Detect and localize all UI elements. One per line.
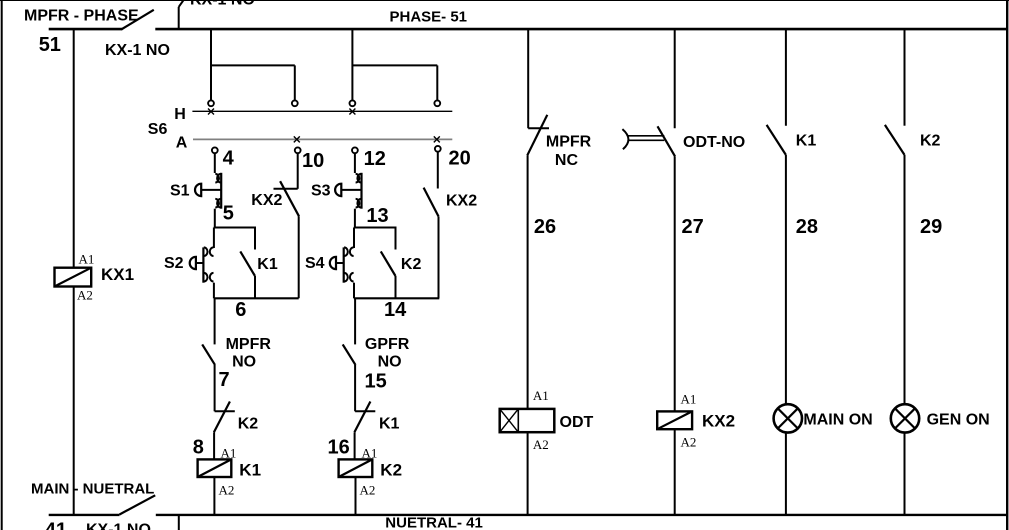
pushbutton S4 (NC) <box>353 228 355 249</box>
S6 bottom terminals <box>212 147 218 153</box>
contact K2 NO (seal-in branch) <box>395 227 397 250</box>
pushbutton S2 (NC) <box>213 228 215 249</box>
svg-text:26: 26 <box>534 216 556 238</box>
wire: lamp to neutral <box>785 433 787 515</box>
svg-text:NO: NO <box>232 354 256 371</box>
svg-text:A1: A1 <box>362 445 378 460</box>
svg-text:A1: A1 <box>221 445 237 460</box>
contact MPFR NC <box>528 127 549 129</box>
wire: rung 29 from phase bus <box>904 29 906 126</box>
wire: S6 line H <box>192 110 452 112</box>
svg-text:29: 29 <box>920 216 942 238</box>
relay coil KX2 <box>657 411 692 429</box>
svg-text:20: 20 <box>449 148 471 170</box>
pushbutton S3 (NO) <box>356 174 360 183</box>
svg-text:KX-1 NO: KX-1 NO <box>190 0 255 9</box>
contact K1 NC <box>355 410 375 412</box>
svg-text:27: 27 <box>682 216 704 238</box>
wire: contact to MAIN ON lamp <box>785 155 787 404</box>
svg-text:S3: S3 <box>311 182 331 199</box>
svg-text:KX2: KX2 <box>446 193 477 210</box>
lamp GEN ON <box>891 404 919 432</box>
svg-text:A2: A2 <box>360 482 376 497</box>
svg-text:KX1: KX1 <box>101 265 134 284</box>
wire: left vertical conductor 51 to 41 <box>73 29 75 268</box>
svg-text:PHASE- 51: PHASE- 51 <box>390 8 468 25</box>
svg-text:K1: K1 <box>239 461 261 480</box>
svg-text:S1: S1 <box>170 182 190 199</box>
svg-text:S2: S2 <box>164 255 184 272</box>
pushbutton S1 (NO) <box>215 174 219 183</box>
svg-text:KX2: KX2 <box>702 412 735 431</box>
svg-text:8: 8 <box>193 436 204 458</box>
wire: node 20 stem <box>437 151 439 188</box>
wire: top phase bus PHASE-51 <box>155 28 1008 31</box>
wire: node 12 stem <box>354 153 356 173</box>
contact ODT-NO (off-delay timed) <box>622 129 628 149</box>
svg-text:K2: K2 <box>380 461 402 480</box>
svg-text:NO: NO <box>378 354 402 371</box>
svg-text:K1: K1 <box>796 132 817 149</box>
S6 top terminals on line H <box>208 100 214 106</box>
svg-text:K1: K1 <box>257 256 278 273</box>
wire: rung 26 from phase bus <box>527 29 529 128</box>
svg-text:A2: A2 <box>533 437 549 452</box>
wire: right edge line (phase return) <box>1006 0 1008 530</box>
svg-text:K2: K2 <box>920 132 941 149</box>
svg-text:10: 10 <box>302 150 324 172</box>
wire: S6 T-branch 2 <box>352 64 437 66</box>
timer coil ODT <box>500 409 555 432</box>
wire: node 14 branch <box>354 297 439 299</box>
wire: left edge line <box>1 0 3 530</box>
svg-text:A1: A1 <box>681 392 697 407</box>
svg-text:KX2: KX2 <box>251 192 282 209</box>
contact K2 NO <box>885 125 905 155</box>
svg-text:A: A <box>176 134 188 151</box>
svg-text:S6: S6 <box>148 121 168 138</box>
wire: contact to ODT coil <box>527 155 529 409</box>
svg-text:K2: K2 <box>401 256 422 273</box>
svg-text:A1: A1 <box>79 252 95 267</box>
svg-text:NUETRAL- 41: NUETRAL- 41 <box>385 515 483 530</box>
wire: node 6 branch <box>214 297 299 299</box>
wire: lamp to neutral <box>904 433 906 515</box>
svg-text:28: 28 <box>796 216 818 238</box>
svg-text:6: 6 <box>235 299 246 321</box>
svg-text:A2: A2 <box>681 435 697 450</box>
svg-text:12: 12 <box>364 148 386 170</box>
wire: node 13 branch <box>354 227 396 229</box>
contact K1 NO (seal-in branch) <box>254 227 256 250</box>
svg-text:A1: A1 <box>533 388 549 403</box>
wire: ODT coil to neutral <box>527 432 529 515</box>
svg-text:15: 15 <box>365 371 387 393</box>
svg-text:13: 13 <box>366 205 388 227</box>
wire: node 4 stem <box>214 153 216 173</box>
svg-text:MAIN ON: MAIN ON <box>803 412 872 429</box>
wire: KX2 coil to neutral <box>674 429 676 515</box>
contact KX-1 NO at top (clipped) <box>178 7 180 29</box>
svg-text:5: 5 <box>223 203 234 225</box>
contact KX2 NO <box>424 188 439 217</box>
wire: contact to GEN ON lamp <box>904 155 906 404</box>
svg-text:A2: A2 <box>219 482 235 497</box>
svg-text:H: H <box>174 106 186 123</box>
svg-text:ODT: ODT <box>560 414 594 431</box>
wire: K2 coil to neutral <box>355 477 357 515</box>
lamp MAIN ON <box>774 404 802 432</box>
switch S6 selector: feeder col1 <box>210 29 212 101</box>
wire: S1 to node 5 <box>214 209 216 228</box>
relay coil K2 <box>339 459 373 477</box>
contact K2 NC <box>215 410 235 412</box>
wire: node 5 branch <box>214 227 255 229</box>
wire: top edge line <box>0 0 1009 2</box>
svg-text:41: 41 <box>45 519 67 530</box>
wire: S6 T-branch 1 <box>211 64 295 66</box>
wire: bottom neutral bus NUETRAL-41 main segment <box>156 514 1008 516</box>
wire: rung 28 from phase bus <box>785 29 787 126</box>
svg-text:MAIN - NUETRAL: MAIN - NUETRAL <box>31 481 154 498</box>
svg-text:4: 4 <box>223 148 235 170</box>
svg-text:MPFR: MPFR <box>226 336 272 353</box>
svg-text:K1: K1 <box>379 416 400 433</box>
svg-text:16: 16 <box>328 436 350 458</box>
svg-text:GEN ON: GEN ON <box>927 412 990 429</box>
wire: S3 to node 13 <box>354 209 356 228</box>
wire: contact to KX2 coil <box>674 156 676 411</box>
contact GPFR NO <box>343 344 356 365</box>
wire: stub below neutral bus <box>178 515 180 530</box>
svg-text:14: 14 <box>384 299 407 321</box>
relay coil K1 <box>198 459 232 477</box>
svg-text:A2: A2 <box>77 288 93 303</box>
switch S6 selector: feeder col3 <box>351 29 353 101</box>
svg-text:KX-1 NO: KX-1 NO <box>105 42 170 59</box>
svg-text:MPFR: MPFR <box>546 134 592 151</box>
svg-text:S4: S4 <box>305 255 325 272</box>
svg-text:NC: NC <box>555 152 579 169</box>
svg-text:51: 51 <box>39 34 61 56</box>
wire: node 6 down <box>214 298 216 344</box>
relay coil KX1 <box>55 268 92 287</box>
wire: S6 line A (gray) <box>193 138 452 140</box>
svg-text:7: 7 <box>219 369 230 391</box>
svg-text:K2: K2 <box>238 416 259 433</box>
wire: node 14 down <box>354 298 356 344</box>
contact MPFR NO <box>202 344 215 365</box>
wire: node 10 stem <box>297 153 299 189</box>
contact K1 NO <box>767 125 786 155</box>
svg-text:GPFR: GPFR <box>365 336 410 353</box>
wire: KX2 NC to node 6 <box>298 216 300 298</box>
wire: K1 coil to neutral <box>213 477 215 515</box>
wire: KX2 NO to node 14 <box>438 216 440 298</box>
wire: bottom neutral bus NUETRAL-41 left segment <box>49 514 120 516</box>
svg-text:MPFR - PHASE: MPFR - PHASE <box>24 7 139 24</box>
wire: rung 27 from phase bus <box>674 29 676 128</box>
contact KX2 NC <box>274 188 298 190</box>
svg-text:KX-1 NO: KX-1 NO <box>86 522 151 530</box>
svg-text:ODT-NO: ODT-NO <box>683 134 745 151</box>
